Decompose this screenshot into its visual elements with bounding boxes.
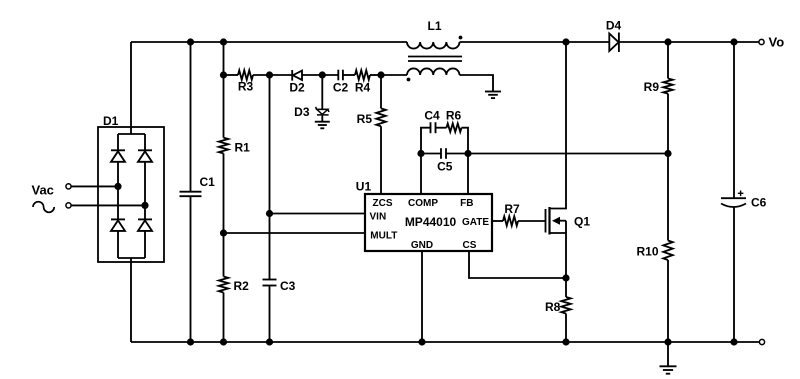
svg-text:C4: C4 [424,109,440,123]
svg-text:C3: C3 [280,279,296,293]
svg-text:R2: R2 [234,279,250,293]
svg-text:GATE: GATE [462,217,489,228]
svg-text:C5: C5 [437,160,453,174]
svg-text:D4: D4 [606,19,622,33]
svg-text:D3: D3 [294,105,310,119]
svg-text:D1: D1 [103,114,119,128]
svg-text:COMP: COMP [408,198,438,209]
svg-text:Q1: Q1 [574,215,590,229]
svg-text:D2: D2 [289,81,305,95]
svg-text:R5: R5 [357,112,373,126]
svg-text:CS: CS [463,240,477,251]
svg-text:U1: U1 [356,180,372,194]
svg-text:C6: C6 [751,196,767,210]
svg-text:R3: R3 [238,80,254,94]
svg-text:Vac: Vac [32,183,54,198]
svg-text:ZCS: ZCS [373,198,393,209]
svg-text:C1: C1 [200,175,216,189]
svg-text:R6: R6 [446,109,462,123]
svg-text:GND: GND [411,240,433,251]
svg-text:R1: R1 [235,141,251,155]
svg-text:R7: R7 [504,202,520,216]
svg-text:Vo: Vo [769,35,785,50]
svg-text:R10: R10 [636,245,658,259]
svg-text:L1: L1 [427,19,441,33]
svg-text:R4: R4 [355,81,371,95]
svg-text:R8: R8 [545,300,561,314]
svg-text:MULT: MULT [370,231,397,242]
svg-text:MP44010: MP44010 [405,215,457,229]
svg-text:C2: C2 [333,81,349,95]
svg-text:VIN: VIN [370,212,387,223]
svg-text:FB: FB [460,198,473,209]
svg-text:R9: R9 [644,80,660,94]
